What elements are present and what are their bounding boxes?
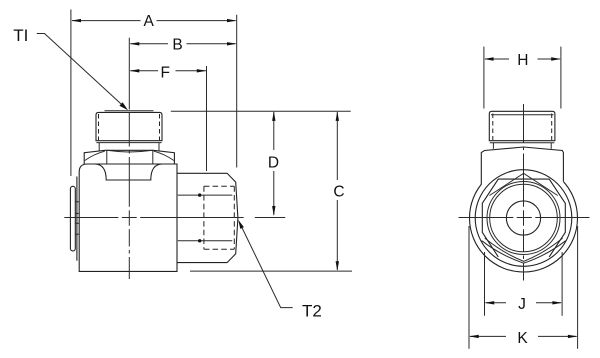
label T2 with leader — [238, 220, 322, 321]
svg-text:H: H — [517, 52, 528, 69]
extension line left (for A) — [70, 10, 72, 177]
chamfer circle — [487, 182, 560, 255]
svg-text:B: B — [172, 37, 182, 54]
top extension line (for C and D) — [171, 110, 351, 112]
bore hole circle — [506, 201, 540, 235]
female port internal thread hidden rectangle — [204, 186, 234, 249]
svg-text:F: F — [160, 65, 169, 82]
centerline extension for D bottom — [255, 217, 285, 219]
neck fillet valley where boss meets body — [95, 164, 163, 180]
female port thread minor lines — [178, 193, 233, 242]
thread circle — [490, 184, 558, 252]
main body block (side view) — [79, 164, 177, 271]
svg-text:J: J — [518, 296, 526, 313]
svg-text:C: C — [333, 183, 344, 200]
left end cap capsule — [70, 186, 75, 251]
vertical centerline of male port — [128, 38, 130, 279]
hex bottom chamfer V skirt inner — [485, 238, 563, 261]
male port neck below thread — [99, 143, 159, 151]
male port thread hidden lines (end view) — [493, 114, 552, 141]
dimension H — [484, 52, 561, 69]
extension lines for H — [483, 47, 485, 109]
swivel nut outer circle — [475, 170, 572, 267]
horizontal centerline of side view — [64, 217, 243, 219]
dimension K — [469, 330, 578, 347]
extension line for F right — [206, 66, 208, 171]
bottom extension line (for C) — [190, 270, 352, 272]
dimension B — [130, 37, 237, 54]
outer body circle (partially hidden by neck block) — [470, 164, 578, 272]
dimension A — [71, 13, 236, 30]
male port (end view top) — [489, 111, 555, 143]
male port neck (end view) — [493, 143, 551, 149]
svg-text:D: D — [268, 154, 279, 171]
male port T1 body (top, side view) — [96, 111, 162, 143]
label T1 with leader — [13, 26, 128, 110]
female nut hexagon (truncated corners, open bottom) — [482, 179, 565, 257]
extension lines for J — [484, 252, 486, 316]
dimension F — [130, 65, 207, 82]
female port T2 outline (right side, hex across corners) — [177, 173, 238, 262]
male port T1 thread hidden lines — [99, 114, 160, 140]
left end cap shoulder line — [76, 177, 78, 261]
neck block white mask — [481, 147, 563, 186]
svg-text:TI: TI — [13, 26, 28, 45]
left end cap step ticks — [75, 202, 79, 234]
extension line right (for A and B) — [236, 15, 238, 168]
horizontal centerline (end view) — [459, 217, 590, 219]
svg-text:T2: T2 — [302, 302, 322, 321]
dimension C — [333, 111, 344, 271]
extension lines for K — [468, 226, 470, 349]
svg-text:A: A — [144, 13, 155, 30]
hex bottom chamfer V skirt outer — [482, 241, 566, 264]
hex flange of male port (side view) — [84, 150, 174, 164]
neck block outline — [481, 147, 563, 185]
dimension J — [485, 296, 563, 313]
hex top chamfer roof slants — [490, 173, 558, 195]
svg-text:K: K — [517, 330, 528, 347]
dimension D — [268, 111, 279, 216]
vertical centerline (end view) — [523, 104, 525, 281]
